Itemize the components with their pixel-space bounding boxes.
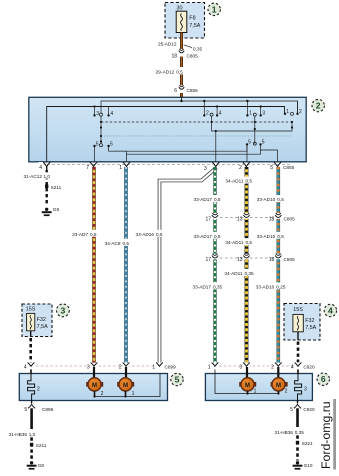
pin 4 left lamp (24, 363, 35, 371)
svg-text:2: 2 (239, 165, 242, 171)
svg-text:0,35: 0,35 (213, 284, 223, 289)
connector 6 C855 (174, 85, 198, 94)
svg-text:5: 5 (248, 140, 251, 146)
svg-text:3: 3 (96, 111, 99, 117)
svg-text:3: 3 (87, 365, 90, 371)
wire fuse3 to pin (dashed) (30, 331, 32, 363)
svg-text:1: 1 (286, 109, 289, 115)
svg-text:31-AC12: 31-AC12 (23, 174, 42, 179)
svg-text:4: 4 (24, 365, 27, 371)
svg-text:F32: F32 (305, 318, 314, 324)
svg-text:2: 2 (299, 109, 302, 115)
svg-text:13: 13 (237, 216, 243, 222)
svg-text:C805: C805 (284, 216, 296, 221)
pin 1 right lamp (208, 363, 219, 371)
wire 34-AC8 (blue/white striped) (102, 167, 130, 364)
svg-text:0,5: 0,5 (277, 197, 284, 202)
svg-text:5: 5 (110, 141, 113, 147)
svg-text:S211: S211 (36, 443, 47, 448)
svg-text:C899: C899 (42, 407, 54, 412)
fuse box (item 1) (165, 3, 205, 39)
wire link to right 5-5 (114, 144, 248, 151)
svg-text:30: 30 (177, 5, 183, 11)
bottom pin 5 C920 right lamp (290, 401, 315, 413)
watermark Ford-omg.ru (319, 399, 336, 470)
svg-text:5: 5 (24, 407, 27, 413)
svg-text:2: 2 (37, 387, 40, 393)
svg-text:2: 2 (119, 365, 122, 371)
svg-text:2: 2 (271, 365, 274, 371)
switch contacts group G3 (1-3) (246, 101, 265, 117)
svg-text:M: M (276, 383, 281, 389)
svg-text:0,5: 0,5 (246, 179, 253, 184)
svg-text:7,5A: 7,5A (189, 23, 200, 29)
switch contacts group G1 (3-4) (93, 107, 113, 118)
pin 1 of module (119, 162, 130, 171)
lower contact set left (5-5) (93, 141, 113, 147)
svg-text:2: 2 (316, 101, 321, 111)
svg-text:3: 3 (239, 365, 242, 371)
wire 31-HB36 to ground (274, 408, 304, 460)
svg-text:34-AC8: 34-AC8 (105, 241, 121, 246)
fuse F32 7,5A (left) (27, 313, 48, 330)
svg-text:0,5: 0,5 (246, 240, 253, 245)
svg-text:31-HB36: 31-HB36 (274, 430, 293, 435)
svg-text:G8: G8 (53, 207, 60, 212)
label 33-AD17 0,5 upper (188, 195, 221, 202)
motor M right-2 (271, 367, 288, 395)
lower contact set right (5-5) (246, 140, 265, 146)
svg-text:4: 4 (219, 111, 222, 117)
wire right 5R to pin 5 (261, 144, 278, 161)
callout circle 3 (57, 304, 70, 317)
svg-text:6: 6 (321, 374, 326, 384)
svg-text:18: 18 (171, 53, 177, 59)
wire fuse4 to pin (dashed) (297, 332, 299, 363)
svg-text:0,5: 0,5 (123, 241, 130, 246)
pin 2 right lamp (271, 363, 282, 371)
inline connector row 1 C805 (205, 213, 295, 222)
wire pin1 cross link (127, 150, 261, 154)
svg-text:4: 4 (110, 111, 113, 117)
wiper stem left (100, 116, 102, 144)
svg-text:0,5: 0,5 (214, 234, 221, 239)
resistor right lamp (295, 369, 307, 400)
internal link wire left lamp (93, 374, 160, 398)
motor M left-2 (117, 367, 134, 397)
pin 4 of module (39, 162, 51, 171)
svg-text:M: M (92, 383, 97, 389)
resistor left lamp (28, 369, 40, 400)
svg-text:3: 3 (262, 111, 265, 117)
svg-text:1: 1 (119, 165, 122, 171)
callout circle 4 (324, 304, 336, 316)
switch contacts group G4 (1-2) (284, 101, 302, 115)
connector 18 C805 (171, 49, 198, 60)
svg-text:5: 5 (262, 140, 265, 146)
svg-text:0,5: 0,5 (214, 197, 221, 202)
pin 1 left lamp C899 (152, 363, 176, 371)
svg-text:5: 5 (96, 141, 99, 147)
wiper stem G3 (254, 116, 256, 144)
wire 33-AD10 (teal/orange striped) (276, 167, 280, 364)
inline connector row 2 C805 (205, 254, 295, 263)
svg-text:6: 6 (174, 88, 177, 94)
svg-text:5: 5 (290, 407, 293, 413)
wire 25-AD12 (brown) (158, 33, 203, 52)
svg-text:34-AD11: 34-AD11 (225, 179, 244, 184)
svg-text:0,5: 0,5 (156, 232, 163, 237)
wire 29-AD12 (brown) (156, 57, 186, 86)
svg-text:33-AD7: 33-AD7 (72, 232, 88, 237)
svg-text:5: 5 (175, 375, 180, 385)
svg-text:34-AD11: 34-AD11 (224, 271, 243, 276)
splice S211 (bottom) (30, 443, 47, 448)
svg-text:S211: S211 (51, 185, 62, 190)
switch module U1 (item 2) (29, 97, 306, 162)
wire into module (180, 93, 183, 97)
mechanical link dotted line (101, 135, 292, 137)
svg-text:0,25: 0,25 (276, 284, 286, 289)
callout circle 2 (312, 99, 324, 111)
svg-text:F32: F32 (37, 317, 46, 323)
svg-text:7: 7 (86, 165, 89, 171)
callout circle 6 (317, 373, 329, 385)
svg-text:0,5: 0,5 (90, 232, 97, 237)
pin 2 of module (239, 162, 250, 171)
label 34-AD11 0,35 lower (221, 269, 255, 276)
svg-text:C805: C805 (284, 257, 296, 262)
pin 3 of module (204, 162, 219, 172)
svg-text:F8: F8 (189, 16, 195, 22)
internal bus B (to pin 4) (47, 105, 285, 161)
label 33-AD17 0,5 mid (188, 232, 221, 239)
fuse box (item 3) (22, 304, 52, 337)
svg-text:G10: G10 (304, 463, 313, 468)
label 33-AD17 0,35 lower (187, 282, 223, 289)
svg-text:M: M (123, 383, 128, 389)
svg-text:31-HB35: 31-HB35 (8, 432, 27, 437)
svg-text:3: 3 (204, 166, 207, 172)
svg-text:C899: C899 (165, 365, 177, 370)
label 34-AD11 0,5 upper (221, 177, 253, 184)
bottom pin 5 C899 left lamp (24, 401, 53, 413)
svg-text:5: 5 (270, 165, 273, 171)
svg-text:C855: C855 (187, 88, 199, 93)
wire 33-AD7 (yellow/red striped) (70, 167, 98, 364)
pin 4 right lamp C920 (291, 363, 315, 371)
svg-text:2: 2 (285, 389, 288, 395)
svg-text:0,5: 0,5 (176, 69, 183, 74)
wiper G2 to pin 3 (212, 116, 216, 161)
svg-text:1: 1 (249, 111, 252, 117)
headlamp assembly right (item 6) (205, 374, 312, 401)
callout circle 5 (171, 373, 183, 385)
pin 3 right lamp (239, 363, 250, 371)
internal link wire right lamp (215, 369, 280, 394)
pin 2 left lamp (119, 363, 130, 371)
label 33-AD10 0,5 mid (253, 232, 285, 239)
callout circle 1 (208, 3, 220, 15)
svg-text:17: 17 (205, 257, 211, 263)
wire 31-AC12 (black dashed) to ground (23, 170, 50, 206)
fuse box (item 4) (284, 304, 320, 341)
svg-text:C805: C805 (187, 53, 199, 58)
svg-text:1: 1 (152, 365, 155, 371)
svg-text:C920: C920 (303, 365, 315, 370)
pin 7 of module (86, 162, 97, 171)
wire 33-AD16 (white) from pin 3 (135, 168, 217, 365)
svg-text:0,5: 0,5 (277, 234, 284, 239)
svg-text:C920: C920 (303, 407, 315, 412)
svg-text:7,5A: 7,5A (37, 324, 48, 330)
svg-text:33-AD17: 33-AD17 (193, 197, 212, 202)
connector boundary dashed line below module (42, 163, 292, 165)
svg-text:34-AD11: 34-AD11 (225, 240, 244, 245)
svg-text:S221: S221 (302, 441, 313, 446)
svg-text:0,35: 0,35 (193, 46, 203, 51)
svg-text:7,5A: 7,5A (305, 325, 316, 331)
wiper G4 feed line (215, 123, 293, 132)
pin 3 left lamp (87, 363, 98, 371)
ground G10 (293, 461, 313, 470)
svg-text:33-AD17: 33-AD17 (193, 234, 212, 239)
svg-text:33-AD17: 33-AD17 (192, 284, 211, 289)
svg-text:1,0: 1,0 (44, 174, 51, 179)
fuse F32 7,5A (right) (293, 314, 317, 331)
svg-text:G8: G8 (38, 463, 45, 468)
internal bus A (101, 97, 298, 113)
mechanical link dashed line (100, 121, 293, 123)
svg-text:4: 4 (291, 365, 294, 371)
svg-text:29-AD12: 29-AD12 (156, 69, 175, 74)
svg-text:M: M (245, 383, 250, 389)
svg-text:3: 3 (61, 305, 66, 315)
connector dashed line above left lamp (36, 365, 157, 367)
motor M left-1 (86, 367, 103, 397)
pin 5 of module C855 (270, 162, 294, 171)
connector dashed line above right lamp (219, 365, 294, 367)
label 33-AD10 0,5 upper (253, 195, 285, 202)
headlamp assembly left (item 5) (19, 374, 167, 401)
wire 5L to pin 7 (94, 146, 96, 162)
svg-text:2: 2 (206, 111, 209, 117)
svg-text:33-AD10: 33-AD10 (257, 234, 276, 239)
svg-text:3: 3 (304, 387, 307, 393)
splice S221 (296, 441, 313, 446)
fuse F8 7,5A (176, 11, 201, 32)
wire 5L-right to pin 1 (109, 146, 127, 162)
svg-text:33-AD10: 33-AD10 (257, 197, 276, 202)
motor M right-1 (239, 367, 256, 395)
svg-text:C855: C855 (283, 165, 295, 170)
wire 31-HB35 to ground (8, 408, 36, 460)
svg-text:18: 18 (269, 216, 275, 222)
svg-text:25-AD12: 25-AD12 (158, 42, 177, 47)
svg-text:17: 17 (205, 216, 211, 222)
svg-text:0,35: 0,35 (295, 430, 305, 435)
switch contacts group G2 (2-4) (203, 101, 222, 117)
wire 33-AD17 (green/white striped) (213, 167, 216, 364)
svg-text:4: 4 (328, 306, 333, 316)
svg-text:33-AD10: 33-AD10 (256, 284, 275, 289)
label 33-AD10 0,25 lower (252, 282, 286, 289)
svg-text:0,35: 0,35 (245, 271, 255, 276)
svg-text:18: 18 (269, 257, 275, 263)
label 34-AD11 0,5 mid (221, 238, 253, 245)
svg-text:15S: 15S (26, 307, 36, 313)
wire 34-AD11 (yellow/black striped) (245, 167, 249, 364)
svg-text:15S: 15S (293, 307, 303, 313)
splice S211 (45, 185, 62, 190)
svg-text:13: 13 (237, 257, 243, 263)
svg-text:33-AD16: 33-AD16 (135, 232, 154, 237)
wire right 5L to pin 2 (246, 144, 248, 161)
svg-text:Ford-omg.ru: Ford-omg.ru (319, 401, 333, 469)
ground G8 (bottom left) (27, 461, 45, 470)
svg-text:1: 1 (208, 365, 211, 371)
ground G8 (42, 207, 60, 216)
svg-text:4: 4 (39, 165, 42, 171)
svg-text:1: 1 (212, 4, 217, 14)
svg-text:1,0: 1,0 (29, 432, 36, 437)
